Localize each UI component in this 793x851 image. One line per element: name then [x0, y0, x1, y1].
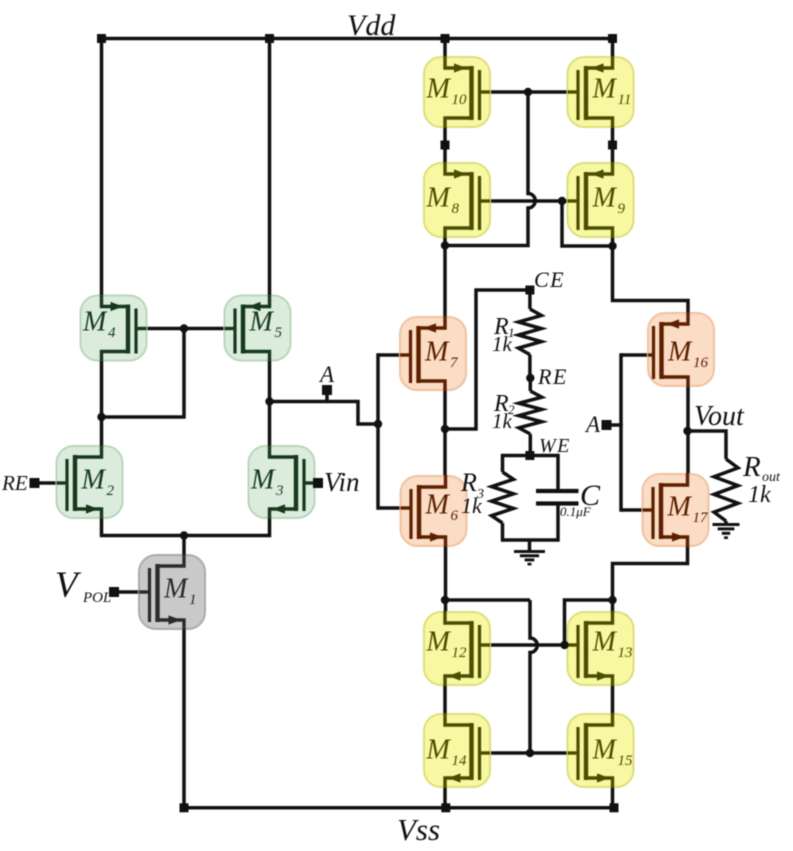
- svg-text:CE: CE: [534, 267, 565, 292]
- svg-text:RE: RE: [1, 471, 28, 495]
- svg-text:Vin: Vin: [324, 467, 360, 497]
- svg-text:1k: 1k: [461, 493, 483, 518]
- svg-text:M: M: [667, 337, 693, 368]
- svg-text:1k: 1k: [492, 332, 513, 356]
- svg-text:Vout: Vout: [694, 401, 745, 432]
- svg-text:M: M: [426, 183, 452, 214]
- svg-text:8: 8: [452, 201, 460, 217]
- svg-text:M: M: [426, 735, 452, 766]
- svg-text:A: A: [584, 412, 601, 437]
- svg-text:M: M: [82, 307, 108, 338]
- svg-text:M: M: [424, 337, 450, 368]
- svg-text:M: M: [592, 74, 618, 105]
- svg-text:A: A: [318, 362, 335, 387]
- svg-text:1k: 1k: [748, 482, 771, 508]
- svg-text:9: 9: [618, 201, 626, 217]
- svg-text:5: 5: [275, 325, 283, 341]
- svg-text:R: R: [742, 451, 761, 483]
- svg-text:M: M: [667, 492, 693, 523]
- svg-text:2: 2: [107, 483, 115, 499]
- svg-text:16: 16: [693, 355, 709, 371]
- svg-text:10: 10: [452, 92, 468, 108]
- svg-text:11: 11: [618, 92, 632, 108]
- svg-text:1k: 1k: [492, 409, 513, 433]
- svg-text:17: 17: [693, 510, 710, 526]
- svg-text:POL: POL: [82, 590, 111, 606]
- svg-text:13: 13: [618, 645, 633, 661]
- svg-text:1: 1: [189, 592, 197, 608]
- svg-text:M: M: [592, 183, 618, 214]
- svg-text:M: M: [426, 74, 452, 105]
- svg-text:12: 12: [452, 645, 468, 661]
- svg-text:14: 14: [452, 753, 468, 769]
- svg-text:0.1μF: 0.1μF: [560, 504, 592, 519]
- svg-text:WE: WE: [539, 435, 571, 457]
- svg-text:15: 15: [618, 753, 634, 769]
- svg-text:M: M: [250, 465, 276, 496]
- svg-text:4: 4: [108, 325, 116, 341]
- svg-text:6: 6: [451, 508, 459, 524]
- svg-text:M: M: [425, 490, 451, 521]
- svg-text:M: M: [249, 307, 275, 338]
- svg-text:M: M: [592, 735, 618, 766]
- svg-text:Vss: Vss: [397, 812, 440, 847]
- svg-text:M: M: [592, 627, 618, 658]
- svg-text:Vdd: Vdd: [347, 9, 396, 42]
- svg-text:M: M: [81, 465, 107, 496]
- svg-text:RE: RE: [537, 364, 568, 389]
- svg-text:M: M: [426, 627, 452, 658]
- svg-text:M: M: [163, 574, 189, 605]
- svg-text:3: 3: [275, 483, 284, 499]
